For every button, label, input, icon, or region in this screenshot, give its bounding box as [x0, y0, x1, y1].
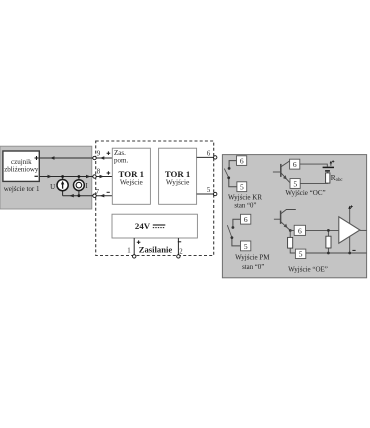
- plus mark supply: [137, 240, 141, 244]
- label Robc: [331, 174, 343, 183]
- svg-text:Wyjście: Wyjście: [166, 178, 189, 187]
- OE pin box 5: [295, 249, 305, 259]
- terminal 9: [93, 156, 96, 159]
- terminal 6: [214, 156, 217, 159]
- OE pin box 6: [294, 225, 305, 235]
- svg-text:6: 6: [244, 215, 248, 224]
- plus mark at TOR1 input pin 9: [107, 151, 111, 155]
- OC wire 6 to battery: [300, 164, 328, 167]
- op-amp A1: [339, 217, 360, 243]
- supply wire minus (terminal 2): [177, 238, 179, 255]
- TOR 1 output block U2: [159, 148, 197, 204]
- svg-text:8: 8: [97, 169, 101, 176]
- battery to resistor stub: [327, 171, 329, 173]
- svg-text:stan “0”: stan “0”: [234, 202, 256, 209]
- wire 8 (sensor - to terminal 8 to TOR1 input +): [40, 175, 113, 178]
- resistor R1 (OE left): [288, 231, 296, 254]
- junction dot R2 bottom: [327, 252, 330, 255]
- svg-text:pom.: pom.: [114, 156, 128, 164]
- svg-text:Wyjście PM: Wyjście PM: [235, 253, 270, 261]
- supply wire plus (terminal 1): [133, 238, 135, 255]
- OC pin box 6: [290, 159, 300, 169]
- svg-text:5: 5: [244, 242, 248, 251]
- terminal 8: [93, 175, 96, 178]
- svg-text:Wyjście KR: Wyjście KR: [228, 193, 262, 201]
- svg-text:Wyjście “OE”: Wyjście “OE”: [288, 266, 328, 274]
- resistor R2 (OE right): [326, 230, 331, 253]
- terminal 2: [177, 255, 180, 258]
- minus mark (OE): [352, 249, 355, 251]
- PM pin box 6: [241, 214, 251, 224]
- voltage source U stubs: [62, 177, 64, 196]
- svg-text:6: 6: [240, 157, 244, 166]
- svg-text:Zasilanie: Zasilanie: [139, 244, 173, 254]
- power supply block 24V: [112, 214, 197, 238]
- OC wire 5 to resistor: [300, 182, 328, 184]
- wire 6 (TOR1 output to terminal 6): [197, 156, 214, 158]
- current source I: [74, 180, 85, 191]
- wire 9 (sensor + to terminal 9 to TOR1 input +): [40, 156, 113, 159]
- OC pin box 5: [290, 179, 300, 189]
- svg-text:6: 6: [298, 226, 302, 235]
- PM contact upper dot: [232, 226, 235, 229]
- PM contact wires: [232, 219, 241, 246]
- battery plus arrow: [330, 160, 335, 166]
- PM pin box 5: [241, 241, 251, 251]
- OE top wire to amplifier: [306, 229, 339, 231]
- amplifier output wire: [360, 229, 367, 231]
- junction dot I top: [78, 175, 81, 178]
- junction dot U top: [61, 175, 64, 178]
- svg-text:24V: 24V: [135, 221, 151, 231]
- sensor minus mark: [35, 175, 38, 177]
- svg-text:5: 5: [299, 250, 303, 259]
- OE bottom wire: [306, 252, 367, 254]
- transistor Q2 (OE): [274, 210, 296, 231]
- wire 7 (TOR1 input - to terminal 7 to sources): [63, 194, 113, 197]
- wire 5 (TOR1 output to terminal 5): [197, 193, 214, 195]
- svg-text:obc: obc: [336, 178, 343, 183]
- plus mark at TOR1 input pin 8: [107, 171, 111, 175]
- svg-text:Wejście: Wejście: [120, 178, 143, 187]
- minus mark supply: [178, 241, 181, 243]
- junction dot R2 top: [327, 229, 330, 232]
- KR contact lever: [224, 169, 228, 178]
- voltage source U: [57, 180, 68, 191]
- TOR 1 input block U1: [112, 148, 150, 204]
- junction dot I bottom: [78, 194, 81, 197]
- terminal 7: [93, 194, 96, 197]
- sensor plus mark: [35, 156, 39, 160]
- svg-text:5: 5: [293, 179, 297, 188]
- KR contact lower dot: [227, 176, 230, 179]
- svg-text:7: 7: [96, 189, 100, 196]
- middle module dashed border box: [96, 141, 214, 256]
- svg-text:1: 1: [127, 248, 130, 255]
- KR pin box 5: [237, 182, 247, 192]
- svg-text:stan “0”: stan “0”: [242, 264, 264, 271]
- transistor Q1 (OC): [273, 161, 290, 183]
- svg-text:Wyjście “OC”: Wyjście “OC”: [285, 189, 325, 197]
- svg-text:wejście tor 1: wejście tor 1: [4, 185, 40, 193]
- KR contact upper dot: [228, 167, 231, 170]
- svg-text:6: 6: [207, 151, 211, 158]
- supply plus arrow: [348, 205, 353, 209]
- OE emitter node dot: [289, 229, 292, 232]
- svg-text:U: U: [50, 183, 55, 191]
- junction dot supply bottom: [348, 252, 351, 255]
- terminal 1: [133, 255, 136, 258]
- OE node to box 6 wire: [290, 230, 294, 232]
- svg-text:zbliżeniowy: zbliżeniowy: [4, 166, 39, 174]
- terminal 5: [214, 192, 217, 195]
- PM contact lever: [227, 225, 231, 237]
- battery B1: [323, 167, 334, 171]
- svg-text:5: 5: [207, 187, 211, 194]
- svg-text:5: 5: [240, 183, 244, 192]
- KR pin box 6: [237, 156, 247, 166]
- left sensor panel: [0, 146, 92, 209]
- svg-text:6: 6: [293, 160, 297, 169]
- KR contact wires: [229, 161, 237, 187]
- svg-text:9: 9: [97, 150, 101, 157]
- right outputs panel: [222, 155, 366, 278]
- czujnik zbliżeniowy box: [3, 151, 39, 181]
- amplifier supply line: [349, 209, 351, 254]
- minus mark at TOR1 input pin 7: [107, 191, 110, 193]
- current source I stubs: [78, 177, 80, 196]
- svg-text:2: 2: [179, 248, 183, 255]
- PM contact lower dot: [231, 236, 234, 239]
- resistor Robc: [326, 173, 330, 183]
